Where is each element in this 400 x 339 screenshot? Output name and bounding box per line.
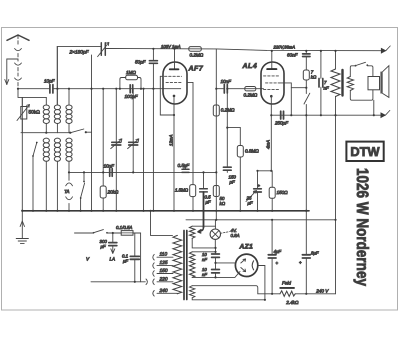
svg-text:7: 7 <box>324 80 327 85</box>
svg-text:μF: μF <box>247 201 253 206</box>
svg-text:60nF: 60nF <box>287 52 299 57</box>
svg-text:+: + <box>258 183 261 188</box>
svg-text:DTW: DTW <box>350 144 380 159</box>
svg-text:4mA: 4mA <box>265 140 270 149</box>
svg-text:240 V: 240 V <box>315 288 329 293</box>
svg-text:0.1/0.5A: 0.1/0.5A <box>116 225 132 230</box>
svg-text:LA: LA <box>110 256 116 261</box>
svg-text:0.8A: 0.8A <box>231 233 240 238</box>
svg-text:110: 110 <box>160 251 168 257</box>
svg-text:Feld: Feld <box>282 280 291 285</box>
svg-text:1026 W Norderney: 1026 W Norderney <box>353 168 371 287</box>
svg-text:1.5MΩ: 1.5MΩ <box>175 187 189 192</box>
svg-text:0.8MΩ: 0.8MΩ <box>245 149 259 154</box>
svg-text:50kΩ: 50kΩ <box>29 110 41 116</box>
svg-text:0.2MΩ: 0.2MΩ <box>244 92 258 97</box>
svg-text:10pF: 10pF <box>44 79 56 84</box>
svg-text:220V,38mA: 220V,38mA <box>273 44 296 49</box>
svg-text:10nF: 10nF <box>221 79 233 84</box>
svg-text:100pF: 100pF <box>125 94 139 99</box>
svg-text:pF: pF <box>229 180 235 185</box>
svg-text:0.5μF: 0.5μF <box>178 163 191 168</box>
svg-text:125: 125 <box>160 260 168 266</box>
svg-text:TA: TA <box>64 189 69 194</box>
svg-text:kΩ: kΩ <box>220 201 226 206</box>
svg-text:4V.: 4V. <box>231 228 237 233</box>
svg-text:220: 220 <box>159 277 168 283</box>
svg-text:V: V <box>86 257 90 262</box>
svg-text:12mA: 12mA <box>169 134 174 146</box>
svg-text:+: + <box>276 261 279 266</box>
svg-text:20kΩ: 20kΩ <box>107 189 119 194</box>
svg-text:50pF: 50pF <box>135 60 147 65</box>
svg-text:nF: nF <box>324 86 329 91</box>
svg-text:kΩ: kΩ <box>311 75 317 80</box>
svg-text:0.2MΩ: 0.2MΩ <box>190 53 204 58</box>
svg-text:nF: nF <box>202 257 207 262</box>
svg-text:4μF: 4μF <box>274 249 282 254</box>
svg-text:nF: nF <box>202 272 207 277</box>
svg-text:150Ω: 150Ω <box>277 190 289 195</box>
svg-text:103V 1mA: 103V 1mA <box>161 44 181 49</box>
svg-text:AZ1: AZ1 <box>239 243 254 250</box>
svg-text:150: 150 <box>160 268 168 274</box>
svg-text:8μF: 8μF <box>311 250 319 255</box>
svg-text:μF: μF <box>122 259 128 264</box>
svg-text:250pF: 250pF <box>274 121 289 126</box>
svg-text:2×180pF: 2×180pF <box>69 50 90 56</box>
svg-text:10nF: 10nF <box>104 163 116 168</box>
svg-text:μF: μF <box>205 200 211 205</box>
svg-text:0.2MΩ: 0.2MΩ <box>221 108 235 113</box>
svg-text:AF7: AF7 <box>188 65 204 72</box>
svg-text:μF: μF <box>100 244 106 249</box>
svg-text:240: 240 <box>159 288 168 294</box>
svg-text:AL4: AL4 <box>242 63 258 70</box>
svg-text:+: + <box>299 260 302 265</box>
svg-text:2.4kΩ: 2.4kΩ <box>285 300 299 305</box>
svg-text:1MΩ: 1MΩ <box>126 70 136 75</box>
